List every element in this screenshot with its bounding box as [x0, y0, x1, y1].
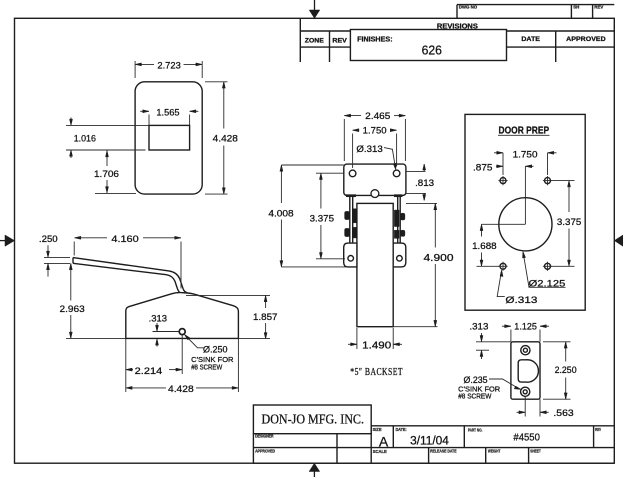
svg-text:SIZE: SIZE [373, 427, 382, 432]
date/approved divider [555, 31, 557, 62]
column header row bottom line left [300, 46, 350, 48]
plate hole left [349, 170, 356, 177]
screw hole [179, 329, 185, 335]
dim 1.857 bottom extension [238, 337, 270, 339]
FINISHES box [350, 30, 506, 61]
svg-text:2.250: 2.250 [555, 365, 577, 376]
svg-text:APPROVED: APPROVED [255, 449, 275, 454]
right spring coil lower [400, 230, 405, 236]
svg-text:4.428: 4.428 [213, 134, 238, 145]
svg-text:.813: .813 [415, 178, 434, 189]
extension below right edge [237, 338, 239, 392]
svg-text:1.016: 1.016 [74, 134, 96, 145]
extension below left edge [125, 338, 127, 392]
center hole [371, 190, 379, 198]
dim 4.900 arrows [434, 203, 437, 209]
svg-text:#4550: #4550 [513, 432, 540, 444]
dim 2.465 arrows [344, 114, 350, 117]
right spring bar lines [397, 196, 399, 243]
dim 1.750 stubs [494, 152, 503, 154]
svg-text:3.375: 3.375 [557, 217, 581, 228]
lever arm bottom edge [73, 263, 180, 292]
right centering mark [614, 235, 623, 246]
dim 1.706 bottom extension [95, 192, 136, 194]
dim 4.428 arrows [222, 82, 225, 88]
svg-text:1.688: 1.688 [472, 241, 497, 252]
dim .813 bottom arrow [423, 193, 425, 200]
divider release/weight [485, 448, 487, 464]
right spring inner dark upper [394, 210, 399, 226]
title block top line [371, 425, 614, 427]
dim .563 stubs [517, 411, 526, 413]
svg-text:4.428: 4.428 [168, 384, 194, 395]
revisions header bottom line [300, 30, 614, 32]
dim 2.214 line [126, 369, 133, 371]
strike bottom hole inner [523, 390, 527, 394]
svg-text:Ø.313: Ø.313 [505, 295, 537, 306]
dim 4.900 top extension [406, 202, 437, 204]
lower ear left [344, 243, 357, 267]
VIEW-SIDE (bottom left) [39, 234, 278, 395]
svg-text:*5″ BACKSET: *5″ BACKSET [350, 367, 403, 378]
svg-text:1.125: 1.125 [514, 322, 537, 333]
dim 1.490 stubs [348, 343, 357, 345]
left spring inner dark lower [353, 227, 358, 238]
screw hole top-left [500, 178, 506, 184]
dim 1.857 arrows [264, 295, 267, 301]
dim .875 arrows [497, 165, 503, 168]
top strip header [457, 4, 614, 6]
divider left of size col [370, 426, 372, 463]
svg-text:SHEET: SHEET [530, 448, 541, 453]
dim .313 strike bottom extension [476, 349, 489, 351]
top centering mark [309, 10, 320, 18]
extension below bottom hole [524, 397, 526, 417]
dim 3.375 extension lines [552, 180, 575, 182]
divider designer col [336, 434, 338, 464]
designer/approved row divider [253, 447, 614, 449]
leader dia .313 [497, 272, 505, 297]
right spring inner dark lower [394, 230, 399, 238]
dim 1.125 extension lines [510, 330, 512, 342]
bore circle [499, 198, 552, 251]
dim .313 arrows [156, 323, 158, 332]
screw hole bottom-left [500, 263, 506, 269]
right spring bar cap [394, 195, 402, 197]
divider size/date [392, 426, 394, 448]
extension below hole [181, 335, 183, 374]
svg-text:2.214: 2.214 [135, 366, 163, 377]
dim 4.428 arrows [126, 386, 132, 389]
dim 1.125 arrows [505, 325, 511, 328]
dim 4.160 extension lines [73, 242, 75, 256]
svg-text:DESIGNER: DESIGNER [255, 434, 274, 439]
lower ear left hole [348, 255, 354, 261]
DOOR PREP underline [498, 134, 550, 136]
leader dia 2.125 [523, 254, 565, 288]
VIEW-DOORPREP (right) [465, 114, 585, 310]
lower ear right hole [397, 255, 403, 261]
svg-text:FINISHES:: FINISHES: [357, 37, 393, 44]
dim 1.565 stubs [140, 110, 149, 112]
svg-text:2.963: 2.963 [60, 304, 85, 315]
dim 2.723 line [135, 63, 154, 65]
leader arrow at bottom hole [514, 386, 521, 389]
title block bottom (frame bottom reinforced) [253, 462, 614, 464]
divider partno/rev [593, 426, 595, 448]
svg-text:DWG NO: DWG NO [459, 5, 478, 10]
strike bottom hole outer [521, 387, 530, 396]
svg-text:DON-JO MFG. INC.: DON-JO MFG. INC. [262, 412, 365, 427]
svg-text:WEIGHT: WEIGHT [488, 448, 501, 453]
dim .563 arrows [519, 411, 525, 414]
title block left edge [252, 434, 254, 464]
dim 2.465 line [344, 115, 361, 117]
dim 4.008 arrows [280, 165, 283, 171]
svg-text:REV: REV [594, 5, 603, 10]
dim 1.688 line [481, 224, 483, 236]
TITLE-BLOCK [253, 405, 614, 463]
svg-text:.313: .313 [149, 313, 167, 324]
dim 1.750 line [353, 129, 359, 131]
dim .813 top arrow [423, 164, 425, 171]
faceplate outline [135, 82, 202, 194]
dim .313 strike bottom arrow [481, 350, 483, 359]
bore crosshair horizontal [482, 223, 526, 225]
dim .313 extension to hole [153, 331, 179, 333]
zone/rev divider [329, 31, 331, 62]
dim 1.706 arrows [106, 151, 108, 166]
dim 3.375 arrows [319, 173, 322, 179]
svg-text:#8 SCREW: #8 SCREW [191, 363, 222, 372]
dim .250 extension lines [44, 256, 70, 258]
dim 1.016 arrows [70, 118, 72, 126]
svg-text:4.008: 4.008 [268, 208, 293, 219]
svg-text:2.723: 2.723 [157, 60, 180, 71]
dim 2.723 arrows [135, 63, 141, 66]
dim 4.428 line [126, 387, 166, 389]
svg-text:.563: .563 [553, 408, 573, 419]
dim 2.963 line [70, 263, 72, 300]
column header row bottom line right [507, 46, 615, 48]
faceplate cutout rectangle [149, 125, 190, 150]
dim .875 stubs [496, 165, 503, 167]
dim 1.857 line [265, 295, 267, 308]
svg-text:REV: REV [595, 427, 601, 432]
left spring bar cap [346, 195, 356, 197]
VIEW-FACEPLATE (top left) [66, 60, 238, 194]
dim 1.490 extension lines [356, 328, 358, 349]
dim 4.428 line [223, 82, 225, 129]
lower ear right [393, 243, 406, 267]
door prep outline [465, 114, 585, 310]
mounting plate [344, 164, 406, 195]
svg-text:REV: REV [332, 38, 347, 45]
leader arrow at hole [500, 270, 503, 277]
svg-text:SCALE: SCALE [373, 449, 387, 454]
dim 1.016 extension lines [66, 124, 149, 126]
dim 4.900 bottom extension [393, 326, 437, 328]
dim 4.008 bottom extension [281, 266, 347, 268]
svg-text:APPROVED: APPROVED [566, 36, 606, 43]
leader to right hole [384, 148, 396, 169]
dim 4.008 line [280, 165, 282, 203]
bottom centering mark [309, 463, 320, 471]
left centering mark [5, 235, 15, 246]
dim 2.723 extension lines [134, 61, 136, 78]
latch main body [357, 203, 393, 326]
svg-text:#8 SCREW: #8 SCREW [458, 391, 491, 400]
dim 4.900 line [434, 203, 436, 247]
divider date/partno [463, 426, 465, 448]
dim 3.375 line [320, 173, 322, 208]
svg-text:1.857: 1.857 [253, 312, 278, 323]
dim 1.490 arrows [351, 343, 357, 346]
dim .313 strike top arrow [481, 333, 483, 342]
dim 1.565 arrows [143, 110, 149, 113]
svg-text:RELEASE DATE: RELEASE DATE [430, 449, 457, 454]
svg-text:1.490: 1.490 [362, 341, 392, 352]
dim 1.565 extension lines [148, 115, 150, 126]
svg-text:1.565: 1.565 [156, 107, 179, 118]
left spring bar lines [349, 196, 351, 243]
dim 1.688 bottom extension [477, 265, 500, 267]
dim 1.750 arrows [497, 151, 503, 154]
extension below right edge [539, 399, 541, 416]
dim 2.214 arrows [126, 368, 132, 371]
svg-text:SH: SH [573, 5, 579, 10]
divider weight/sheet [528, 448, 530, 464]
svg-text:626: 626 [422, 43, 442, 58]
svg-text:DOOR PREP: DOOR PREP [499, 125, 550, 136]
svg-text:1.750: 1.750 [363, 126, 387, 137]
svg-text:ZONE: ZONE [305, 38, 325, 45]
VIEW-STRIKE (bottom right) [458, 322, 576, 419]
svg-text:.250: .250 [39, 234, 58, 245]
screw hole top-right [545, 178, 551, 184]
dim .313 strike top extension [476, 341, 511, 343]
bore crosshair vertical [524, 166, 526, 224]
dim 2.963 bottom extension [66, 337, 126, 339]
dim 4.160 arrows [75, 236, 81, 239]
leader dia .235 [489, 379, 517, 388]
lever arm top edge [73, 258, 187, 293]
screw hole bottom-right [545, 263, 551, 269]
dim 3.375 line [568, 181, 570, 212]
svg-text:2.465: 2.465 [365, 111, 390, 122]
dim 1.688 arrows [480, 224, 483, 230]
strike D cutout [518, 360, 538, 382]
left spring coil upper [345, 211, 350, 219]
dim 1.857 top extension [186, 294, 270, 296]
dim 3.375 top extension [316, 172, 344, 174]
dim 2.250 line [565, 342, 567, 362]
VIEW-LATCH (middle) [268, 111, 453, 378]
dim 4.428 extension lines [205, 81, 228, 83]
divider scale/release [428, 448, 430, 464]
dim .250 arrows [47, 245, 49, 257]
dim 3.375 arrows [568, 181, 571, 187]
dim 2.963 arrows [69, 263, 72, 269]
plate hole right [393, 170, 400, 177]
dim 2.250 extension lines [543, 341, 571, 343]
REVISIONS-TABLE [300, 18, 614, 62]
svg-text:DATE:: DATE: [396, 427, 407, 432]
leader to screw hole [185, 335, 204, 348]
svg-text:A: A [379, 433, 389, 449]
svg-text:Ø2.125: Ø2.125 [529, 279, 566, 290]
dim 1.125 stubs [502, 325, 511, 327]
latch body outline [126, 293, 239, 339]
svg-text:1.706: 1.706 [94, 169, 119, 180]
revisions table left edge [299, 18, 301, 62]
dim 1.750 extension lines [352, 134, 354, 169]
svg-text:PART NO.: PART NO. [468, 428, 483, 433]
strike top hole inner [523, 348, 527, 352]
dim .813 top extension [406, 170, 426, 172]
dim 4.160 line [75, 237, 108, 239]
svg-text:4.160: 4.160 [111, 234, 138, 245]
dim 1.750 arrows [353, 129, 359, 132]
strike top hole outer [521, 346, 530, 355]
strike plate outline [511, 342, 540, 399]
dim 2.250 arrows [564, 342, 567, 348]
left spring coil lower [345, 228, 350, 236]
svg-text:3/11/04: 3/11/04 [410, 435, 449, 447]
company name box [253, 405, 371, 434]
dim .813 bottom extension [406, 192, 427, 194]
left spring inner dark upper [353, 209, 358, 223]
svg-text:.875: .875 [473, 163, 493, 174]
lever arm tip [72, 258, 74, 264]
svg-text:4.900: 4.900 [424, 252, 454, 264]
svg-text:DATE: DATE [521, 36, 540, 43]
dim 3.375 bottom extension [316, 258, 345, 260]
svg-text:.313: .313 [469, 322, 488, 333]
svg-text:Ø.313: Ø.313 [356, 144, 382, 155]
dim 1.750 extension lines [502, 153, 504, 175]
right spring coil upper [400, 213, 405, 220]
dim 2.465 extension lines [343, 119, 345, 161]
leader arrow [184, 334, 190, 340]
svg-text:1.750: 1.750 [513, 150, 538, 161]
leader arrow at hole [393, 163, 396, 170]
leader arrow at bore [523, 251, 526, 258]
dim 4.008 top extension [281, 164, 343, 166]
svg-text:3.375: 3.375 [310, 214, 334, 225]
